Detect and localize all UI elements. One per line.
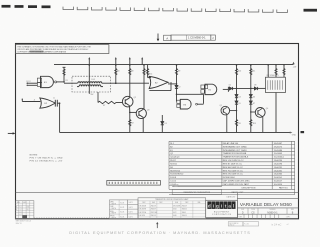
svg-text:NOTES:: NOTES: bbox=[30, 155, 39, 157]
svg-text:A: A bbox=[166, 36, 168, 40]
svg-text:1-72: 1-72 bbox=[19, 209, 22, 211]
svg-text:9-8-71: 9-8-71 bbox=[120, 202, 124, 204]
svg-text:Q4: Q4 bbox=[266, 108, 268, 110]
svg-text:1 CS M360-0-1: 1 CS M360-0-1 bbox=[188, 36, 206, 40]
svg-text:9-8-71: 9-8-71 bbox=[129, 207, 133, 209]
svg-text:J.SMITH: J.SMITH bbox=[111, 208, 116, 210]
svg-text:DESCRIPTION: DESCRIPTION bbox=[242, 187, 256, 189]
svg-text:DRN: DRN bbox=[110, 202, 113, 204]
svg-text:9-8-71: 9-8-71 bbox=[129, 212, 133, 214]
svg-text:9-71: 9-71 bbox=[19, 207, 22, 209]
svg-text:6-72: 6-72 bbox=[19, 214, 22, 216]
svg-text:D3: D3 bbox=[165, 123, 167, 125]
svg-text:DIST.: DIST. bbox=[239, 217, 243, 219]
svg-text:C1: C1 bbox=[53, 98, 55, 100]
svg-text:J.SMITH: J.SMITH bbox=[111, 203, 116, 205]
svg-text:D2: D2 bbox=[178, 87, 180, 89]
svg-text:B: B bbox=[16, 209, 17, 211]
svg-text:D4: D4 bbox=[239, 96, 241, 98]
svg-text:J.SMITH: J.SMITH bbox=[111, 213, 116, 215]
svg-text:D7: D7 bbox=[253, 103, 255, 105]
svg-text:9-8-71: 9-8-71 bbox=[129, 216, 133, 218]
svg-text:D8: D8 bbox=[254, 85, 256, 87]
svg-text:9-8-71: 9-8-71 bbox=[129, 202, 133, 204]
svg-text:is 1/4 wC: is 1/4 wC bbox=[272, 224, 282, 227]
svg-text:VARIABLE DELAY M360: VARIABLE DELAY M360 bbox=[240, 202, 292, 207]
svg-text:R3: R3 bbox=[117, 71, 119, 73]
svg-text:CODE: CODE bbox=[251, 209, 255, 211]
svg-text:R7: R7 bbox=[103, 105, 105, 107]
svg-text:PIN 14 ON EACH IC = +5V: PIN 14 ON EACH IC = +5V bbox=[30, 159, 63, 162]
svg-text:9-8-71: 9-8-71 bbox=[120, 207, 124, 209]
svg-text:PIN 7 ON EACH IC = GND: PIN 7 ON EACH IC = GND bbox=[30, 157, 63, 160]
svg-text:R10: R10 bbox=[238, 71, 241, 73]
svg-text:R14: R14 bbox=[149, 74, 152, 76]
svg-text:GND: GND bbox=[292, 134, 297, 136]
svg-text:D2 K2: D2 K2 bbox=[26, 81, 31, 83]
svg-text:9-8-71: 9-8-71 bbox=[120, 212, 124, 214]
svg-text:DIGITAL EQUIPMENT CORPORATION: DIGITAL EQUIPMENT CORPORATION · MAYNARD.… bbox=[69, 231, 251, 235]
svg-text:Q1: Q1 bbox=[220, 105, 222, 107]
svg-text:R11: R11 bbox=[252, 71, 255, 73]
svg-text:PARTS LIST: PARTS LIST bbox=[232, 191, 244, 194]
svg-text:9-8-71: 9-8-71 bbox=[120, 216, 124, 218]
svg-text:REV: REV bbox=[17, 202, 20, 204]
svg-text:C O R P O R A T I O N: C O R P O R A T I O N bbox=[212, 213, 232, 216]
svg-text:J1: J1 bbox=[34, 100, 36, 102]
svg-text:R8: R8 bbox=[131, 71, 133, 73]
svg-text:P-1 4/6: P-1 4/6 bbox=[244, 224, 249, 226]
svg-text:WM: WM bbox=[27, 207, 29, 209]
svg-text:g: g bbox=[216, 205, 219, 210]
svg-text:Q2: Q2 bbox=[134, 97, 136, 99]
svg-text:a: a bbox=[228, 205, 231, 210]
svg-text:CS: CS bbox=[251, 212, 255, 214]
svg-text:M360-0-1: M360-0-1 bbox=[267, 211, 278, 214]
svg-text:MAY 20: MAY 20 bbox=[16, 222, 22, 225]
svg-text:CHK: CHK bbox=[110, 206, 113, 208]
svg-text:R2: R2 bbox=[131, 123, 133, 125]
svg-text:DEC FORM NO: DEC FORM NO bbox=[229, 223, 238, 225]
svg-text:Q3: Q3 bbox=[147, 110, 149, 112]
svg-text:DATE LIST: DATE LIST bbox=[227, 196, 237, 199]
svg-text:GH: GH bbox=[27, 209, 29, 211]
svg-text:R6: R6 bbox=[239, 123, 241, 125]
svg-text:R1: R1 bbox=[66, 80, 68, 82]
svg-text:D1: D1 bbox=[229, 85, 231, 87]
svg-text:PART NO.: PART NO. bbox=[279, 186, 289, 189]
svg-text:d: d bbox=[208, 204, 211, 210]
svg-text:J.SMITH: J.SMITH bbox=[111, 217, 116, 219]
svg-text:4-72: 4-72 bbox=[19, 211, 22, 213]
svg-text:1 OF 1: 1 OF 1 bbox=[286, 217, 291, 219]
svg-text:SIZE: SIZE bbox=[241, 209, 244, 211]
svg-text:D5: D5 bbox=[239, 103, 241, 105]
svg-text:R15: R15 bbox=[253, 123, 256, 125]
svg-text:D6: D6 bbox=[253, 96, 255, 98]
svg-text:E Q U I P M E N T: E Q U I P M E N T bbox=[214, 211, 230, 213]
svg-text:R9: R9 bbox=[178, 71, 180, 73]
